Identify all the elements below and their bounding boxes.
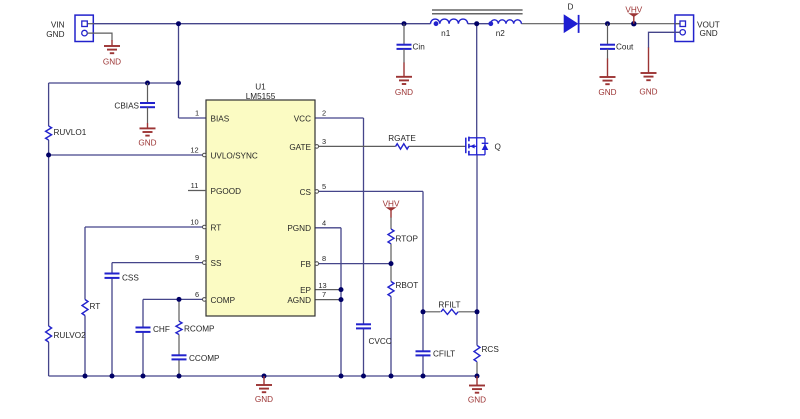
svg-text:n1: n1 xyxy=(441,29,451,38)
wire: n1 to n2 center tap xyxy=(468,23,491,25)
svg-text:RGATE: RGATE xyxy=(388,134,416,143)
resistor RTOP xyxy=(388,229,418,244)
node: rail CHF xyxy=(141,374,146,379)
connector J VOUT xyxy=(675,15,694,42)
svg-text:RCS: RCS xyxy=(482,345,500,354)
transistor Q (power NMOS with body diode) xyxy=(466,137,501,156)
resistor RT xyxy=(82,300,100,316)
node: top wire / BIAS branch xyxy=(176,21,181,26)
capacitor CCOMP xyxy=(172,354,221,363)
svg-text:BIAS: BIAS xyxy=(211,114,230,123)
svg-text:GND: GND xyxy=(598,88,616,97)
wire: VOUT gnd branch xyxy=(649,32,681,48)
op-amp U1 LM5155 IC body xyxy=(206,83,315,317)
svg-text:RFILT: RFILT xyxy=(438,301,460,310)
svg-text:VOUT: VOUT xyxy=(697,20,720,29)
pin circle GATE xyxy=(315,145,319,149)
node: Cout xyxy=(605,21,610,26)
capacitor Cout xyxy=(600,24,634,59)
wire: SS net vertical below CSS xyxy=(111,278,113,376)
resistor RBOT xyxy=(388,281,418,297)
svg-text:Cin: Cin xyxy=(413,43,426,52)
node: AGND junction xyxy=(339,297,344,302)
svg-text:GND: GND xyxy=(46,30,64,39)
wire: CCOMP to rail lead xyxy=(178,359,180,376)
svg-text:RTOP: RTOP xyxy=(396,235,419,244)
svg-text:7: 7 xyxy=(322,290,326,299)
wire: CFILT to rail xyxy=(422,355,424,376)
svg-text:2: 2 xyxy=(322,109,326,118)
resistor RUVLO1 xyxy=(46,126,87,140)
node: VHV xyxy=(631,21,636,26)
svg-text:RBOT: RBOT xyxy=(396,281,419,290)
wire: SS pin 9 net horizontal xyxy=(112,262,206,264)
wire: n2 to diode anode lead xyxy=(521,23,564,25)
svg-text:CBIAS: CBIAS xyxy=(114,102,139,111)
svg-text:UVLO/SYNC: UVLO/SYNC xyxy=(211,151,258,160)
svg-text:RCOMP: RCOMP xyxy=(184,325,215,334)
resistor RGATE xyxy=(388,134,416,149)
node: rail CSS xyxy=(110,374,115,379)
svg-text:6: 6 xyxy=(195,290,199,299)
node: UVLO divider tap xyxy=(46,153,51,158)
svg-text:RT: RT xyxy=(211,223,222,232)
node: rail PGND xyxy=(339,374,344,379)
ground (VIN) xyxy=(103,40,121,67)
svg-text:RUVLO1: RUVLO1 xyxy=(54,128,87,137)
capacitor CSS xyxy=(105,274,140,283)
svg-text:9: 9 xyxy=(195,253,199,262)
wire: VCC net vertical to CVCC xyxy=(363,118,365,324)
svg-text:CS: CS xyxy=(300,188,312,197)
wire: bottom ground rail xyxy=(49,375,477,377)
wire: RTOP lower lead to FB node xyxy=(390,244,392,264)
pin circle FB xyxy=(315,262,319,266)
resistor RCOMP xyxy=(176,321,215,334)
ground (Cin) xyxy=(395,63,413,98)
svg-text:SS: SS xyxy=(211,259,222,268)
wire: horizontal to left rail y83 xyxy=(49,82,179,84)
svg-text:PGND: PGND xyxy=(287,224,311,233)
resistor RCS xyxy=(474,345,499,362)
svg-text:CHF: CHF xyxy=(153,325,170,334)
connector J VIN xyxy=(75,15,94,41)
svg-text:FB: FB xyxy=(301,260,312,269)
wire: RCS lower lead to rail xyxy=(476,362,478,376)
wire: RCS upper lead xyxy=(476,312,478,346)
pin circle UVLO/SYNC xyxy=(203,153,207,157)
svg-text:CCOMP: CCOMP xyxy=(189,354,220,363)
wire: RT pin 10 net horizontal xyxy=(85,226,206,228)
wire: RCOMP branch upper lead xyxy=(178,299,180,321)
wire: RFILT right lead to source node xyxy=(458,311,477,313)
svg-text:LM5155: LM5155 xyxy=(246,92,276,101)
wire: CS node to RFILT left lead xyxy=(423,311,440,313)
power symbol VHV (output) xyxy=(625,5,642,23)
ground (VOUT) xyxy=(639,48,657,97)
node: CS filter left xyxy=(421,309,426,314)
power symbol VHV (feedback divider) xyxy=(383,200,400,218)
wire: VIN gnd pin stub xyxy=(87,33,112,40)
node: rail RBOT xyxy=(389,374,394,379)
svg-text:AGND: AGND xyxy=(287,296,311,305)
svg-text:GND: GND xyxy=(700,29,718,38)
wire: RCOMP to CCOMP lead xyxy=(178,335,180,356)
diode D xyxy=(564,3,578,33)
svg-text:GND: GND xyxy=(103,58,121,67)
wire: CHF branch vertical above xyxy=(142,299,144,327)
wire: VCC pin 2 net horizontal xyxy=(315,117,364,119)
svg-text:GND: GND xyxy=(255,395,273,404)
wire: CHF branch vertical below xyxy=(142,332,144,376)
svg-text:13: 13 xyxy=(318,281,326,290)
node: EP junction xyxy=(339,287,344,292)
pin circle RT xyxy=(203,225,207,229)
capacitor CFILT xyxy=(416,350,456,359)
ground (CBIAS) xyxy=(138,123,156,148)
wire: CS net vertical xyxy=(422,191,424,311)
pin circle CS xyxy=(315,190,319,194)
wire: MOSFET drain to transformer tap xyxy=(476,24,478,138)
svg-text:5: 5 xyxy=(322,182,326,191)
svg-text:12: 12 xyxy=(190,146,198,155)
node: CBIAS tap xyxy=(145,81,150,86)
svg-text:RULVO2: RULVO2 xyxy=(54,331,87,340)
svg-text:Q: Q xyxy=(495,143,501,152)
transformer core xyxy=(432,10,523,14)
pin circle SS xyxy=(203,261,207,265)
wire: top net VIN to transformer n1 xyxy=(94,23,431,25)
pin stub PGOOD (no connect) xyxy=(188,190,206,192)
svg-text:GND: GND xyxy=(639,88,657,97)
svg-text:D: D xyxy=(568,3,574,12)
wire: CS pin 5 net horizontal xyxy=(315,190,423,192)
node: rail RT xyxy=(83,374,88,379)
capacitor CVCC xyxy=(356,324,392,346)
svg-text:EP: EP xyxy=(300,286,311,295)
node: transformer center tap xyxy=(474,21,479,26)
capacitor Cin xyxy=(397,24,426,63)
svg-text:GND: GND xyxy=(138,139,156,148)
wire: UVLO/SYNC pin 12 net xyxy=(49,154,206,156)
pin circle COMP xyxy=(203,298,207,302)
svg-text:PGOOD: PGOOD xyxy=(211,187,242,196)
node: rail CVCC xyxy=(361,374,366,379)
wire: CFILT branch vertical above xyxy=(422,312,424,352)
ground (Cout) xyxy=(598,59,616,98)
svg-text:COMP: COMP xyxy=(211,296,236,305)
inductor winding n1 xyxy=(431,19,468,38)
node: y83 / BIAS vertical xyxy=(176,81,181,86)
wire: GATE net left of RGATE xyxy=(315,145,396,147)
svg-text:1: 1 xyxy=(195,109,199,118)
wire: diode cathode lead to Cout node xyxy=(578,23,607,25)
svg-text:4: 4 xyxy=(322,218,326,227)
wire: RT net vertical upper xyxy=(84,227,86,300)
wire: RBOT lower lead to rail xyxy=(390,297,392,377)
inductor winding n2 xyxy=(488,20,521,38)
node: top wire / Cin xyxy=(402,21,407,26)
wire: EP pin 13 stub xyxy=(315,289,341,291)
node: rail RCS xyxy=(475,374,480,379)
resistor RFILT xyxy=(438,301,460,315)
node: source sense xyxy=(475,309,480,314)
wire: AGND pin 7 stub xyxy=(315,299,341,301)
svg-text:GND: GND xyxy=(468,396,486,405)
svg-text:VIN: VIN xyxy=(51,20,65,29)
capacitor CHF xyxy=(136,325,170,334)
svg-text:CVCC: CVCC xyxy=(369,337,392,346)
wire: PGND pin 4 net horizontal xyxy=(315,227,341,229)
node: FB divider tap xyxy=(389,261,394,266)
svg-text:GATE: GATE xyxy=(289,143,311,152)
svg-text:U1: U1 xyxy=(255,83,266,92)
svg-text:10: 10 xyxy=(190,218,198,227)
wire: GATE net right of RGATE to MOSFET xyxy=(409,145,466,147)
svg-text:RT: RT xyxy=(90,302,101,311)
wire: Cout node to VOUT connector xyxy=(608,23,681,25)
svg-text:11: 11 xyxy=(191,181,199,190)
svg-text:VHV: VHV xyxy=(383,200,400,209)
resistor RULVO2 xyxy=(46,326,86,342)
svg-text:n2: n2 xyxy=(496,29,506,38)
ground (bottom rail left) xyxy=(255,376,273,404)
wire: PGND net vertical to rail xyxy=(340,228,342,376)
svg-text:CFILT: CFILT xyxy=(433,350,455,359)
wire: BIAS pin wire xyxy=(179,117,207,119)
wire: CVCC to rail xyxy=(363,328,365,376)
wire: MOSFET source down to sense node xyxy=(476,155,478,312)
svg-text:VHV: VHV xyxy=(625,5,642,14)
wire: RTOP upper lead from VHV xyxy=(390,217,392,229)
svg-text:3: 3 xyxy=(322,137,326,146)
wire: SS net vertical above CSS xyxy=(111,263,113,274)
wire: left rail between RUVLO1 and RULVO2 xyxy=(48,140,50,326)
wire: left rail lower segment xyxy=(48,342,50,376)
node: rail GND1 xyxy=(262,374,267,379)
svg-text:GND: GND xyxy=(395,88,413,97)
wire: COMP pin 6 net horizontal xyxy=(143,298,206,300)
ground (bottom rail right) xyxy=(468,376,486,405)
wire: top net vertical drop to BIAS xyxy=(178,24,180,118)
node: rail CFILT xyxy=(421,374,426,379)
wire: RBOT upper lead xyxy=(390,264,392,282)
svg-text:8: 8 xyxy=(322,254,326,263)
node: COMP / RCOMP junction xyxy=(177,297,182,302)
svg-text:CSS: CSS xyxy=(122,274,139,283)
node: rail CCOMP xyxy=(177,374,182,379)
svg-text:VCC: VCC xyxy=(294,114,311,123)
svg-text:Cout: Cout xyxy=(616,43,634,52)
capacitor CBIAS xyxy=(114,83,155,123)
wire: FB pin 8 net xyxy=(315,263,391,265)
wire: left rail upper segment xyxy=(48,83,50,126)
wire: RT net vertical lower xyxy=(84,316,86,377)
